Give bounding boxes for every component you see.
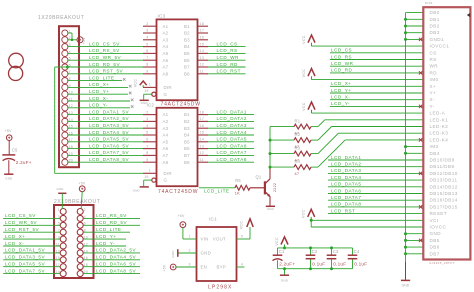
wire net LCD_DATA7_5V (X1 pin 19 to IC2 A7) xyxy=(67,150,143,155)
wire net LCD_DATA1 from IC2 B1 xyxy=(208,109,254,114)
svg-text:LCD_RST: LCD_RST xyxy=(331,208,355,213)
svg-text:A7: A7 xyxy=(163,153,169,158)
wire net LCD_DATA1_5V at X2 pin 13 xyxy=(3,248,60,253)
svg-text:LCD_RST_5V: LCD_RST_5V xyxy=(5,227,40,232)
svg-text:9: 9 xyxy=(146,158,148,162)
svg-text:+5V: +5V xyxy=(5,129,12,133)
svg-text:2.2uF+: 2.2uF+ xyxy=(16,160,32,165)
svg-text:LCD_DATA6_5V: LCD_DATA6_5V xyxy=(89,143,129,148)
wire net LCD_Y- stub from X1 pin 12 xyxy=(67,103,133,108)
svg-text:LCD_RD: LCD_RD xyxy=(217,62,239,67)
wire net LCD_CS to DIS1 xyxy=(330,48,423,53)
+5V supply at IC1 EN xyxy=(162,264,196,271)
svg-text:4: 4 xyxy=(241,262,243,266)
svg-text:GND: GND xyxy=(201,251,212,256)
svg-text:14: 14 xyxy=(200,138,204,142)
svg-text:LCD_RS_5V: LCD_RS_5V xyxy=(89,48,120,53)
resistor R4 47 to LED-K4 xyxy=(270,140,423,176)
ground at DIS1 trunk xyxy=(401,280,410,287)
svg-text:LCD_LITE: LCD_LITE xyxy=(96,227,121,232)
svg-text:4: 4 xyxy=(146,36,148,40)
svg-text:LED-K4: LED-K4 xyxy=(430,137,449,142)
svg-text:13: 13 xyxy=(200,144,204,148)
svg-text:A6: A6 xyxy=(163,58,169,63)
wire net LCD_RD from IC3 B7 xyxy=(208,62,246,67)
svg-text:R3: R3 xyxy=(295,145,301,150)
ground at IC2 pin 19 xyxy=(133,180,152,193)
wire net LCD_DATA1_5V (X1 pin 13 to IC2 A1) xyxy=(67,109,143,114)
wire net LCD_DATA7_5V at X2 pin 19 xyxy=(3,268,60,273)
svg-text:G: G xyxy=(164,92,168,97)
wire net LCD_RST_5V (X1 pin 7 to IC3 A8) xyxy=(67,69,143,74)
wire net LCD_DATA2_5V (X1 pin 14 to IC2 A2) xyxy=(67,116,143,121)
svg-text:IC1: IC1 xyxy=(209,217,217,222)
wire net LCD_RD_5V (X1 pin 6 to IC3 A7) xyxy=(67,62,143,67)
svg-text:+5V: +5V xyxy=(162,264,166,271)
svg-text:12: 12 xyxy=(200,151,204,155)
transistor Q1 2222 xyxy=(256,167,277,206)
svg-text:DB1: DB1 xyxy=(430,17,440,22)
svg-text:1X20BREAKOUT: 1X20BREAKOUT xyxy=(38,15,84,21)
svg-text:A2: A2 xyxy=(163,31,169,36)
svg-text:LCD_LITE: LCD_LITE xyxy=(204,189,229,194)
svg-text:A8: A8 xyxy=(163,160,169,165)
svg-text:LCD_RS_5V: LCD_RS_5V xyxy=(96,213,127,218)
wire net LCD_DATA6 to DIS1 xyxy=(328,188,423,193)
svg-text:GND: GND xyxy=(5,177,12,181)
svg-text:LCD_Y-: LCD_Y- xyxy=(331,101,350,106)
svg-text:B7: B7 xyxy=(184,65,190,70)
wire net LCD_DATA1 to DIS1 xyxy=(328,155,423,160)
svg-text:B6: B6 xyxy=(184,146,190,151)
svg-text:18: 18 xyxy=(200,22,204,26)
wire net LCD_DATA5 to DIS1 xyxy=(328,182,423,187)
op-amp/buffer U IC2 74ACT245DW xyxy=(143,102,208,194)
svg-text:LCD_DATA6: LCD_DATA6 xyxy=(331,188,361,193)
svg-text:6: 6 xyxy=(146,49,148,53)
ground at IC1 GND pin xyxy=(171,249,197,257)
wire net LCD_DATA4 from IC2 B4 xyxy=(208,130,254,135)
svg-text:VCC: VCC xyxy=(302,102,306,111)
svg-text:B3: B3 xyxy=(184,126,190,131)
svg-text:74ACT245DW: 74ACT245DW xyxy=(161,101,201,107)
wire net LCD_DATA2 from IC2 B2 xyxy=(208,116,254,121)
svg-text:GND: GND xyxy=(171,250,175,257)
svg-text:RESET: RESET xyxy=(430,211,448,216)
svg-text:VCC: VCC xyxy=(275,237,279,246)
svg-text:IM3: IM3 xyxy=(430,144,439,149)
wire VCC/GND rails for C1-C4 xyxy=(278,246,353,270)
svg-text:A5: A5 xyxy=(163,139,169,144)
ground at X2 pin 1 xyxy=(57,187,67,209)
wire net LCD_DATA8 from IC2 B8 xyxy=(208,157,254,162)
resistor R1 47 to LED-K1 xyxy=(270,118,423,135)
svg-text:LCD_X-: LCD_X- xyxy=(331,95,350,100)
wire net LCD_RS_5V at X2 pin 4 xyxy=(83,213,140,218)
svg-text:B6: B6 xyxy=(184,58,190,63)
wire net LCD_LITE at X2 pin 8 xyxy=(83,227,130,232)
wire net LCD_DATA5_5V at X2 pin 17 xyxy=(3,262,60,267)
svg-text:74ACT245DW: 74ACT245DW xyxy=(158,189,198,195)
svg-text:3: 3 xyxy=(189,262,191,266)
svg-text:DB3: DB3 xyxy=(430,30,440,35)
svg-text:LCD_CS_5V: LCD_CS_5V xyxy=(5,213,36,218)
svg-text:LCD_DATA8: LCD_DATA8 xyxy=(331,202,361,207)
wire net LCD_RD_5V branch to IC2 DIR xyxy=(55,66,143,174)
svg-text:A1: A1 xyxy=(163,112,169,117)
svg-text:1: 1 xyxy=(58,208,60,212)
svg-text:LCD_DATA7_5V: LCD_DATA7_5V xyxy=(5,268,45,273)
wire net LCD_LITE stub from X1 pin 8 xyxy=(67,75,125,80)
svg-text:EN: EN xyxy=(201,265,208,270)
svg-text:R1: R1 xyxy=(295,118,301,123)
svg-text:LCD_X-: LCD_X- xyxy=(89,96,108,101)
svg-text:VCC: VCC xyxy=(302,69,306,78)
svg-text:LCD_DATA8_5V: LCD_DATA8_5V xyxy=(96,268,136,273)
wire net LCD_X+ to DIS1 xyxy=(330,81,423,86)
svg-text:0.1uF: 0.1uF xyxy=(333,261,346,266)
svg-text:DB17/DB15: DB17/DB15 xyxy=(430,204,458,209)
svg-text:LCD_WR: LCD_WR xyxy=(217,55,240,60)
svg-text:IM0: IM0 xyxy=(430,77,439,82)
svg-text:3: 3 xyxy=(146,29,148,33)
wire net LCD_DATA6_5V at X2 pin 18 xyxy=(83,262,140,267)
svg-text:VIN: VIN xyxy=(201,237,209,242)
svg-text:2: 2 xyxy=(84,208,86,212)
ground at Q1 emitter xyxy=(266,206,275,211)
svg-text:5: 5 xyxy=(146,131,148,135)
capacitor C5 2.2uF xyxy=(2,147,31,173)
svg-text:DB13/DB11: DB13/DB11 xyxy=(430,178,458,183)
svg-text:LCD_DATA3_5V: LCD_DATA3_5V xyxy=(5,255,45,260)
svg-text:LCD_WR_5V: LCD_WR_5V xyxy=(89,55,122,60)
svg-text:Y-: Y- xyxy=(430,104,435,109)
svg-text:B1: B1 xyxy=(184,24,190,29)
svg-text:2.2uF+: 2.2uF+ xyxy=(279,261,295,266)
svg-text:CS: CS xyxy=(430,50,437,55)
wire net LCD_DATA8 to DIS1 xyxy=(328,202,423,207)
svg-text:LCD_Y-: LCD_Y- xyxy=(96,241,115,246)
svg-text:LCD_RD_5V: LCD_RD_5V xyxy=(96,220,127,225)
wire net LCD_WR_5V at X2 pin 5 xyxy=(3,220,60,225)
wire net LCD_DATA2_5V at X2 pin 14 xyxy=(83,248,140,253)
svg-text:B5: B5 xyxy=(184,139,190,144)
svg-text:LCD_X+: LCD_X+ xyxy=(5,234,26,239)
ground trunk wire at DIS1 xyxy=(404,13,423,280)
svg-text:C3: C3 xyxy=(333,249,339,254)
svg-text:Q1: Q1 xyxy=(256,175,262,180)
svg-text:DB16/DB14: DB16/DB14 xyxy=(430,198,458,203)
svg-text:DIS1: DIS1 xyxy=(425,1,433,5)
svg-text:LCD_DATA4: LCD_DATA4 xyxy=(217,130,247,135)
svg-text:DB0: DB0 xyxy=(430,10,440,15)
svg-text:VOUT: VOUT xyxy=(213,237,226,242)
svg-text:DIR: DIR xyxy=(164,171,172,176)
wire net LCD_DATA8_5V (X1 pin 20 to IC2 A8) xyxy=(67,157,143,162)
svg-text:DB10/DB8: DB10/DB8 xyxy=(430,158,455,163)
svg-text:VCI: VCI xyxy=(430,218,439,223)
svg-text:LCD_DATA5_5V: LCD_DATA5_5V xyxy=(5,262,45,267)
wire net LCD_DATA3_5V (X1 pin 15 to IC2 A3) xyxy=(67,123,143,128)
connector X1 1X20BREAKOUT xyxy=(38,15,84,167)
svg-text:C1: C1 xyxy=(279,249,285,254)
wire net LCD_Y+ to DIS1 xyxy=(330,88,423,93)
svg-text:2: 2 xyxy=(146,22,148,26)
wire net LCD_DATA5_5V (X1 pin 17 to IC2 A5) xyxy=(67,137,143,142)
wire net LCD_DATA3 to DIS1 xyxy=(328,168,423,173)
resistor R5 1K xyxy=(235,178,265,195)
resistor R2 47 to LED-K2 xyxy=(270,127,423,150)
svg-text:DB6: DB6 xyxy=(430,245,440,250)
wire net LCD_X- to DIS1 xyxy=(330,95,423,100)
svg-text:LCD_RS: LCD_RS xyxy=(217,48,238,53)
capacitor C1 2.2uF+ xyxy=(273,248,296,269)
svg-text:G: G xyxy=(164,178,168,183)
svg-text:LCD_DATA7: LCD_DATA7 xyxy=(331,195,361,200)
svg-text:LED-K1: LED-K1 xyxy=(430,117,449,122)
VCC supply to DIS1 LED-A xyxy=(302,102,423,113)
svg-text:16: 16 xyxy=(200,36,204,40)
display connector DIS1 ILI9325_28TFT xyxy=(423,1,470,265)
svg-text:4: 4 xyxy=(146,124,148,128)
svg-text:1: 1 xyxy=(149,83,151,87)
svg-text:LCD_WR_5V: LCD_WR_5V xyxy=(5,220,38,225)
VCC supply to DIS1 IOVCC1 xyxy=(302,35,423,46)
svg-text:LCD_DATA1: LCD_DATA1 xyxy=(217,109,247,114)
wire net LCD_RS from IC3 B5 xyxy=(208,48,246,53)
svg-text:VCC: VCC xyxy=(302,35,306,44)
mounting hole H1 xyxy=(9,53,24,68)
svg-text:LCD_RST_5V: LCD_RST_5V xyxy=(89,69,124,74)
svg-text:B4: B4 xyxy=(184,133,190,138)
svg-text:LCD_DATA1: LCD_DATA1 xyxy=(331,155,361,160)
svg-text:6: 6 xyxy=(146,138,148,142)
capacitor C4 0.1uF xyxy=(348,248,368,269)
VCC supply to DIS1 VCI and IOVCC xyxy=(302,209,424,227)
svg-text:C4: C4 xyxy=(354,249,360,254)
svg-text:DIR: DIR xyxy=(164,85,172,90)
wire net LCD_WR from IC3 B6 xyxy=(208,55,246,60)
svg-text:B4: B4 xyxy=(184,44,190,49)
svg-text:LCD_DATA3: LCD_DATA3 xyxy=(217,123,247,128)
svg-text:17: 17 xyxy=(200,29,204,33)
svg-text:LCD_DATA5: LCD_DATA5 xyxy=(331,182,361,187)
wire net LCD_DATA6 from IC2 B6 xyxy=(208,143,254,148)
svg-text:IOVCC: IOVCC xyxy=(430,225,447,230)
svg-text:11: 11 xyxy=(200,70,204,74)
svg-text:LCD_Y+: LCD_Y+ xyxy=(331,88,352,93)
+5V supply at X2 pin 2 xyxy=(79,182,86,209)
svg-text:GND: GND xyxy=(133,189,140,193)
svg-text:DB5: DB5 xyxy=(430,238,440,243)
wire net LCD_X+ stub from X1 pin 9 xyxy=(67,82,131,87)
svg-text:3: 3 xyxy=(146,117,148,121)
+5V supply at X1 pins 1-2 xyxy=(67,33,86,44)
svg-text:VCC: VCC xyxy=(134,79,138,88)
wire net LCD_DATA3_5V at X2 pin 15 xyxy=(3,255,60,260)
svg-text:LCD_DATA1_5V: LCD_DATA1_5V xyxy=(5,248,45,253)
wire net LCD_RD to DIS1 xyxy=(330,68,423,73)
svg-text:B2: B2 xyxy=(184,119,190,124)
svg-text:WR: WR xyxy=(430,64,439,69)
svg-text:A1: A1 xyxy=(163,24,169,29)
VCC supply at IC3 DIR xyxy=(134,79,147,88)
svg-text:DB7: DB7 xyxy=(430,251,440,256)
op-amp/buffer U IC3 74ACT245DW xyxy=(143,14,208,108)
svg-text:LCD_DATA4: LCD_DATA4 xyxy=(331,175,361,180)
wire net LCD_RST from IC3 B8 xyxy=(208,69,246,74)
svg-text:+5V: +5V xyxy=(178,214,185,218)
wire net LCD_LITE to R5 xyxy=(199,188,235,194)
+5V supply at IC1 VIN xyxy=(178,214,197,239)
wire net LCD_RS to DIS1 xyxy=(330,54,423,59)
VCC supply at cap rail xyxy=(275,237,288,248)
svg-text:LCD_CS: LCD_CS xyxy=(217,41,238,46)
wire net LCD_CS from IC3 B4 xyxy=(208,41,246,46)
capacitor C3 0.1uF xyxy=(327,248,347,269)
wire net LCD_DATA7 from IC2 B7 xyxy=(208,150,254,155)
svg-text:A4: A4 xyxy=(163,133,169,138)
svg-text:LCD_LITE: LCD_LITE xyxy=(89,75,114,80)
+5V supply at C5 xyxy=(5,129,12,154)
svg-text:2: 2 xyxy=(146,110,148,114)
svg-text:LCD_DATA6: LCD_DATA6 xyxy=(217,143,247,148)
svg-text:0.1uF: 0.1uF xyxy=(312,261,325,266)
svg-text:8: 8 xyxy=(146,151,148,155)
svg-text:0.1uF: 0.1uF xyxy=(354,261,367,266)
svg-text:A7: A7 xyxy=(163,65,169,70)
svg-text:2222: 2222 xyxy=(273,183,277,192)
wire net LCD_DATA4_5V (X1 pin 16 to IC2 A4) xyxy=(67,130,143,135)
svg-text:BYP: BYP xyxy=(216,265,226,270)
wire net LCD_WR to DIS1 xyxy=(330,61,423,66)
svg-text:LCD_RST: LCD_RST xyxy=(217,69,241,74)
svg-text:LCD_Y-: LCD_Y- xyxy=(89,103,108,108)
wire net LCD_Y+ stub from X1 pin 10 xyxy=(67,89,131,94)
svg-text:DB14/DB12: DB14/DB12 xyxy=(430,184,458,189)
mounting hole H2 xyxy=(9,66,23,80)
svg-text:R2: R2 xyxy=(295,132,301,137)
wire net LCD_RST to DIS1 xyxy=(328,208,423,213)
svg-text:14: 14 xyxy=(200,49,204,53)
svg-text:16: 16 xyxy=(200,124,204,128)
svg-text:LCD_RS: LCD_RS xyxy=(331,54,352,59)
svg-text:15: 15 xyxy=(200,42,204,46)
svg-text:LCD_DATA2_5V: LCD_DATA2_5V xyxy=(89,116,129,121)
svg-text:LCD_DATA2_5V: LCD_DATA2_5V xyxy=(96,248,136,253)
svg-text:2: 2 xyxy=(189,248,191,252)
ground at C1 xyxy=(280,267,289,282)
svg-text:IC3: IC3 xyxy=(158,14,166,19)
svg-text:A5: A5 xyxy=(163,51,169,56)
svg-text:2X10BREAKOUT: 2X10BREAKOUT xyxy=(54,199,100,205)
svg-text:VCC: VCC xyxy=(302,209,306,218)
svg-text:LCD_CS_5V: LCD_CS_5V xyxy=(89,41,120,46)
ground at C5 xyxy=(4,174,13,180)
wire net LCD_DATA7 to DIS1 xyxy=(328,195,423,200)
wire net LCD_X+ at X2 pin 9 xyxy=(3,234,60,239)
svg-text:IOVCC1: IOVCC1 xyxy=(430,44,450,49)
svg-text:LCD_X+: LCD_X+ xyxy=(331,81,352,86)
svg-text:A3: A3 xyxy=(163,126,169,131)
svg-text:X+: X+ xyxy=(430,84,437,89)
svg-text:A6: A6 xyxy=(163,146,169,151)
svg-text:19: 19 xyxy=(144,89,148,93)
svg-text:LCD_DATA8: LCD_DATA8 xyxy=(217,157,247,162)
svg-text:LCD_DATA3: LCD_DATA3 xyxy=(331,168,361,173)
svg-text:R5: R5 xyxy=(235,178,241,183)
svg-text:A8: A8 xyxy=(163,71,169,76)
wire net LCD_RD_5V at X2 pin 6 xyxy=(83,220,140,225)
wire net LCD_CS_5V at X2 pin 3 xyxy=(3,213,60,218)
svg-text:19: 19 xyxy=(144,175,148,179)
svg-text:GND1: GND1 xyxy=(430,37,445,42)
svg-text:B3: B3 xyxy=(184,37,190,42)
svg-text:LCD_DATA4_5V: LCD_DATA4_5V xyxy=(96,255,136,260)
svg-text:GND: GND xyxy=(281,279,288,283)
svg-text:RS: RS xyxy=(430,57,437,62)
wire net LCD_X- at X2 pin 11 xyxy=(3,241,60,246)
wire Q1 collector trunk to R1-R4 xyxy=(269,127,272,169)
wire net LCD_X- stub from X1 pin 11 xyxy=(67,96,133,101)
svg-text:GND: GND xyxy=(267,207,274,211)
svg-text:A3: A3 xyxy=(163,37,169,42)
svg-text:B5: B5 xyxy=(184,51,190,56)
svg-text:GND: GND xyxy=(430,231,442,236)
wire net LCD_DATA2 to DIS1 xyxy=(328,162,423,167)
svg-text:B2: B2 xyxy=(184,31,190,36)
svg-text:13: 13 xyxy=(200,56,204,60)
svg-text:DB11/DB9: DB11/DB9 xyxy=(430,164,455,169)
svg-text:ILI9325_28TFT: ILI9325_28TFT xyxy=(429,261,455,265)
svg-text:LED-A: LED-A xyxy=(430,111,446,116)
svg-text:LED-K2: LED-K2 xyxy=(430,124,449,129)
svg-text:IC2: IC2 xyxy=(147,102,155,107)
svg-text:8: 8 xyxy=(146,63,148,67)
svg-text:7: 7 xyxy=(146,144,148,148)
svg-text:15: 15 xyxy=(200,131,204,135)
svg-text:LCD_DATA4_5V: LCD_DATA4_5V xyxy=(89,130,129,135)
svg-text:+5V: +5V xyxy=(79,182,86,186)
svg-text:11: 11 xyxy=(200,158,204,162)
svg-text:LCD_X+: LCD_X+ xyxy=(89,82,110,87)
svg-text:B1: B1 xyxy=(184,112,190,117)
svg-text:LP298X: LP298X xyxy=(208,284,232,290)
svg-text:LCD_CS: LCD_CS xyxy=(331,48,352,53)
svg-text:1: 1 xyxy=(189,234,191,238)
regulator IC1 LP298X xyxy=(189,217,244,291)
svg-text:LCD_WR: LCD_WR xyxy=(331,61,354,66)
svg-text:7: 7 xyxy=(146,56,148,60)
wire net LCD_DATA6_5V (X1 pin 18 to IC2 A6) xyxy=(67,143,143,148)
svg-text:DB4: DB4 xyxy=(430,151,440,156)
svg-text:DB12/DB10: DB12/DB10 xyxy=(430,171,458,176)
svg-text:B7: B7 xyxy=(184,153,190,158)
capacitor C2 0.1uF xyxy=(306,248,326,269)
svg-text:LCD_DATA2: LCD_DATA2 xyxy=(217,116,247,121)
svg-text:VCC: VCC xyxy=(239,221,243,230)
svg-text:B8: B8 xyxy=(184,71,190,76)
svg-text:18: 18 xyxy=(200,110,204,114)
wire net LCD_Y- at X2 pin 12 xyxy=(83,241,126,246)
wire net LCD_Y+ at X2 pin 10 xyxy=(83,234,126,239)
svg-text:X-: X- xyxy=(430,97,436,102)
svg-text:B8: B8 xyxy=(184,160,190,165)
svg-text:LED-K3: LED-K3 xyxy=(430,131,449,136)
svg-text:LCD_DATA8_5V: LCD_DATA8_5V xyxy=(89,157,129,162)
svg-text:5: 5 xyxy=(241,234,243,238)
connector X2 2X10BREAKOUT xyxy=(54,199,100,278)
